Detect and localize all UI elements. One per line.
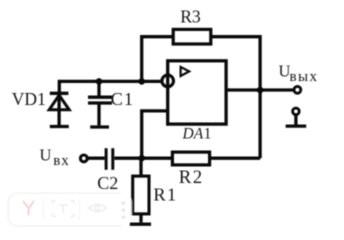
resistor R3 bbox=[173, 29, 211, 44]
wire: C2 to R2 bbox=[114, 157, 172, 160]
svg-text:VD1: VD1 bbox=[12, 89, 46, 109]
op-amp DA1 bbox=[162, 61, 226, 124]
svg-text:C1: C1 bbox=[111, 89, 135, 109]
watermark Y icon bbox=[24, 202, 34, 215]
svg-text:вх: вх bbox=[53, 153, 70, 169]
resistor R2 bbox=[172, 152, 209, 165]
svg-text:R1: R1 bbox=[153, 185, 177, 205]
watermark toolbar box bbox=[8, 193, 133, 227]
svg-text:R2: R2 bbox=[179, 167, 204, 188]
wire: R2 to right rail bbox=[210, 157, 261, 160]
watermark eye icon bbox=[89, 205, 107, 212]
capacitor C2 bbox=[106, 148, 113, 170]
svg-text:DA1: DA1 bbox=[182, 125, 212, 142]
svg-text:U: U bbox=[40, 145, 52, 164]
wire: op-amp output bbox=[226, 88, 294, 91]
watermark T icon bbox=[53, 201, 75, 217]
capacitor C1 bbox=[88, 81, 112, 127]
wire: Uin to C2 bbox=[88, 157, 105, 160]
node: R1 junction bbox=[138, 155, 145, 162]
node: C1 junction bbox=[96, 78, 103, 85]
svg-text:C2: C2 bbox=[97, 173, 118, 193]
diode VD1 bbox=[49, 93, 69, 126]
node: output junction bbox=[257, 87, 264, 94]
resistor R1 bbox=[130, 158, 151, 224]
watermark dots icon bbox=[122, 202, 125, 219]
wire: R3 to right rail, down to output node bbox=[211, 37, 260, 159]
terminal Uin bbox=[80, 155, 87, 162]
svg-text:R3: R3 bbox=[180, 7, 201, 27]
terminal Uout bbox=[294, 86, 301, 93]
wire: top rail from VD1 corner to inverting input bbox=[59, 81, 162, 94]
node: feedback junction bbox=[138, 78, 145, 85]
terminal common bbox=[286, 108, 307, 126]
wire: non-inverting input down to bottom rail bbox=[142, 111, 168, 158]
wire: feedback riser to R3 bbox=[142, 37, 174, 82]
svg-text:вых: вых bbox=[290, 69, 319, 85]
